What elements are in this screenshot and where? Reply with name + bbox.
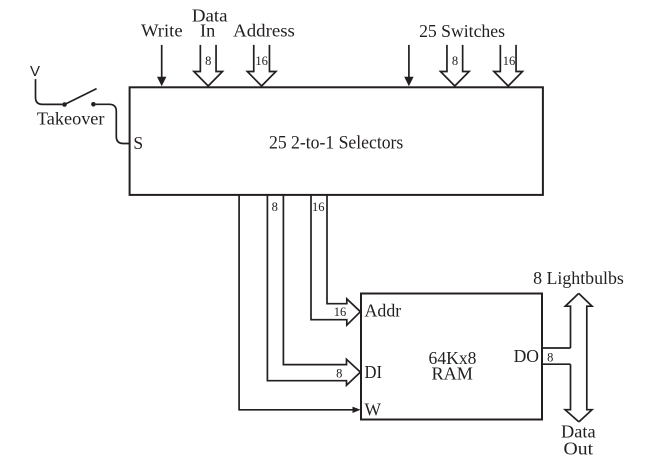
- svg-text:Addr: Addr: [365, 301, 402, 321]
- svg-text:Write: Write: [141, 21, 183, 41]
- svg-text:8: 8: [336, 367, 342, 381]
- svg-text:V: V: [30, 63, 40, 80]
- svg-text:DO: DO: [514, 346, 539, 366]
- svg-text:16: 16: [255, 54, 268, 68]
- svg-text:16: 16: [503, 54, 516, 68]
- svg-text:Address: Address: [233, 21, 295, 41]
- svg-text:25 2-to-1 Selectors: 25 2-to-1 Selectors: [269, 133, 403, 153]
- svg-text:Takeover: Takeover: [37, 108, 105, 128]
- svg-text:W: W: [365, 400, 382, 420]
- svg-text:Out: Out: [564, 438, 594, 458]
- svg-text:DI: DI: [365, 362, 383, 382]
- svg-text:8: 8: [272, 200, 278, 214]
- svg-text:8: 8: [452, 54, 458, 68]
- svg-text:RAM: RAM: [432, 363, 473, 383]
- svg-text:8: 8: [205, 54, 211, 68]
- svg-text:16: 16: [334, 305, 347, 319]
- svg-text:8 Lightbulbs: 8 Lightbulbs: [533, 268, 624, 288]
- svg-text:8: 8: [547, 351, 553, 365]
- svg-text:In: In: [200, 21, 215, 41]
- svg-text:S: S: [133, 133, 143, 153]
- svg-text:25 Switches: 25 Switches: [419, 21, 505, 41]
- svg-text:16: 16: [312, 200, 325, 214]
